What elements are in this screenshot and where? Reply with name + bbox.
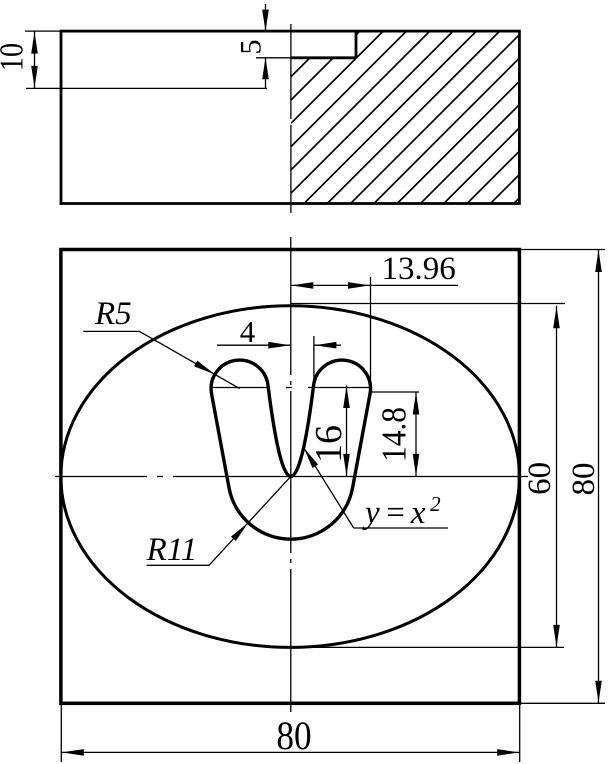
svg-text:60: 60 <box>522 462 558 495</box>
dim 14.8 arrows <box>413 393 420 415</box>
lobe-level centerline <box>211 387 370 389</box>
dimension 5 lines <box>265 4 267 31</box>
dim 60 arrows <box>553 306 560 328</box>
pocket depth line <box>26 87 267 89</box>
notch bottom edge <box>291 56 356 59</box>
ellipse <box>61 306 520 648</box>
dim 80 bottom arrows <box>62 749 84 756</box>
top view outline rectangle <box>61 31 519 203</box>
notch bottom extension line <box>256 57 291 59</box>
dimension text 10 <box>0 43 30 71</box>
dim text 14.8 <box>375 407 414 462</box>
svg-text:13.96: 13.96 <box>382 251 456 287</box>
dim 16 arrows <box>343 386 350 408</box>
svg-text:5: 5 <box>235 40 268 55</box>
dimension 5 arrows <box>262 10 269 32</box>
dim text 16 <box>308 425 350 463</box>
horizontal centerline <box>55 476 528 478</box>
dim 14.8 lines <box>369 392 419 476</box>
R5 leader arrow <box>194 361 215 375</box>
svg-text:4: 4 <box>240 314 256 349</box>
dim 16 line <box>346 386 348 477</box>
dim 13.96 arrows <box>291 282 313 289</box>
dimension 10 lines <box>34 31 36 88</box>
svg-text:10: 10 <box>0 43 30 71</box>
square outline <box>61 250 520 704</box>
svg-text:80: 80 <box>276 714 311 759</box>
R11 leader <box>147 476 291 565</box>
R5 leader <box>83 331 239 388</box>
dim text 80 bottom <box>276 714 311 759</box>
vertical centerline <box>290 237 292 712</box>
dim 4 lines <box>217 336 341 384</box>
y=x2 leader arrow <box>304 448 318 468</box>
svg-text:R11: R11 <box>146 532 198 568</box>
hatching (section lines) <box>291 31 519 203</box>
dim 80 right lines <box>519 250 605 704</box>
notch right edge <box>355 31 358 58</box>
dim 4 arrows <box>268 342 290 349</box>
dimension 10 arrows <box>31 32 38 54</box>
R11 leader arrow <box>231 523 248 541</box>
section centerline <box>290 24 292 213</box>
y=x2 leader <box>304 448 448 528</box>
svg-text:80: 80 <box>566 463 602 496</box>
dim 60 lines <box>291 304 565 648</box>
svg-text:14.8: 14.8 <box>375 407 414 462</box>
dim 80 right arrows <box>595 250 602 272</box>
svg-text:16: 16 <box>308 425 350 463</box>
parabolic slot outline <box>211 360 370 539</box>
dim 80 bottom lines <box>61 705 519 762</box>
dim 13.96: extension + dimension line <box>291 277 458 391</box>
svg-text:R5: R5 <box>94 296 132 332</box>
top edge extension line (left) <box>25 30 61 32</box>
